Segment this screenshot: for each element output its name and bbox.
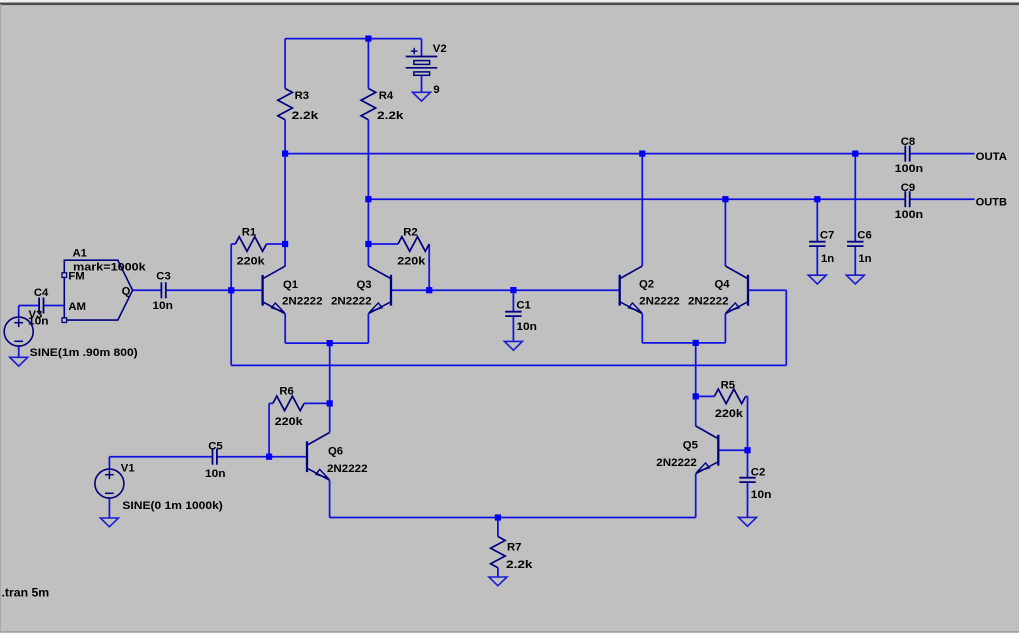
modulator A1: [62, 248, 146, 323]
svg-text:C4: C4: [34, 287, 49, 299]
net label OUTA: [976, 151, 1007, 163]
transistor Q5: [656, 426, 718, 474]
svg-text:C5: C5: [208, 440, 222, 452]
capacitor C4: [34, 287, 49, 314]
svg-text:R5: R5: [721, 380, 735, 392]
svg-text:100n: 100n: [895, 209, 924, 221]
svg-text:1n: 1n: [858, 253, 871, 265]
node OUTA / Q2 collector: [639, 151, 645, 157]
svg-text:10n: 10n: [152, 300, 173, 312]
capacitor C7: [809, 229, 834, 265]
svg-text:2N2222: 2N2222: [327, 463, 368, 475]
svg-text:Q: Q: [122, 286, 131, 298]
capacitor C8: [895, 136, 924, 175]
transistor Q3: [331, 266, 391, 314]
ground below R7: [489, 577, 507, 586]
node OUTB / Q4 collector: [722, 196, 728, 202]
svg-text:OUTB: OUTB: [976, 196, 1007, 208]
resistor R5: [714, 380, 745, 420]
svg-text:2N2222: 2N2222: [639, 296, 680, 308]
node top rail / V2: [365, 36, 371, 42]
ground below V2: [413, 92, 431, 101]
node R7 / emitter rail: [495, 514, 501, 520]
wire R6 right stub: [304, 402, 330, 404]
ground below C1: [504, 341, 522, 350]
wire C2 top stem: [747, 450, 749, 478]
node R1 / Q1 collector: [282, 241, 288, 247]
wire R1 right stub: [267, 243, 286, 245]
transistor Q4: [688, 266, 748, 314]
resistor R4: [361, 89, 404, 122]
capacitor C2: [739, 467, 771, 501]
wire OUTB rail: [368, 198, 905, 200]
wire V1 to C5: [109, 456, 212, 458]
svg-text:220k: 220k: [275, 416, 304, 428]
wire R2 right riser: [428, 244, 430, 290]
svg-text:C1: C1: [516, 299, 530, 311]
capacitor C1: [505, 299, 537, 333]
svg-text:10n: 10n: [205, 468, 226, 480]
voltage source V3: [4, 317, 138, 359]
wire V2 ground stem: [421, 75, 423, 92]
wire Q5 emitter drop: [695, 474, 697, 518]
svg-text:Q6: Q6: [328, 445, 343, 457]
svg-text:R6: R6: [279, 385, 293, 397]
node Q1 base: [228, 287, 234, 293]
resistor R7: [491, 537, 534, 572]
resistor R1: [235, 226, 266, 267]
svg-text:2.2k: 2.2k: [292, 110, 319, 122]
wire Q3 emitter drop: [367, 314, 369, 343]
wire Q1-Q3 emitter tie: [285, 342, 368, 344]
wire C5 to Q6 base: [217, 456, 307, 458]
wire emitter bottom rail: [330, 517, 696, 519]
battery V2: [406, 43, 447, 96]
svg-text:100n: 100n: [895, 163, 924, 175]
ground below V3: [10, 357, 28, 366]
svg-text:R3: R3: [295, 90, 309, 102]
node C5 / Q6 base: [266, 454, 272, 460]
svg-text:Q4: Q4: [715, 279, 731, 291]
transistor Q1: [263, 266, 323, 314]
wire R1 left stub: [231, 243, 235, 245]
wire C7 ground stem: [816, 246, 818, 275]
svg-text:R4: R4: [379, 90, 394, 102]
spice directive .tran 5m: [2, 585, 50, 599]
wire top supply rail: [285, 38, 421, 40]
wire R3 top stub: [284, 39, 286, 89]
svg-text:2N2222: 2N2222: [331, 295, 372, 307]
svg-text:9: 9: [433, 84, 439, 96]
wire C1 top stem: [512, 290, 514, 312]
resistor R3: [278, 89, 319, 122]
wire right tail riser: [695, 343, 697, 426]
node R5 / Q5 collector: [693, 393, 699, 399]
svg-text:Q1: Q1: [283, 279, 298, 291]
wire Q6 emitter drop: [329, 480, 331, 517]
wire Q5 base stub: [718, 449, 747, 451]
svg-text:220k: 220k: [237, 255, 266, 267]
svg-text:V1: V1: [121, 463, 135, 475]
svg-text:C2: C2: [751, 467, 765, 479]
ground below V1: [100, 518, 118, 527]
svg-text:C7: C7: [820, 229, 834, 241]
wire Q2-Q4 emitter tie: [642, 342, 725, 344]
wire Q output to C3: [133, 289, 162, 291]
wire V2 drop: [421, 39, 423, 57]
node Q1-Q3 emitter tail: [327, 340, 333, 346]
svg-text:C6: C6: [857, 229, 871, 241]
label C4 value: [28, 316, 49, 328]
node OUTB / R4: [365, 196, 371, 202]
wire R5 right stub: [746, 395, 748, 397]
svg-text:V2: V2: [433, 43, 447, 55]
svg-text:.tran 5m: .tran 5m: [2, 585, 50, 599]
svg-text:2N2222: 2N2222: [656, 457, 697, 469]
node R6 / Q6 collector: [327, 400, 333, 406]
svg-text:2N2222: 2N2222: [282, 295, 323, 307]
wire R2 left stub: [368, 243, 398, 245]
node OUTA / R3: [282, 151, 288, 157]
wire C6 ground stem: [854, 246, 856, 275]
svg-text:R1: R1: [242, 226, 256, 238]
svg-text:1n: 1n: [821, 253, 834, 265]
wire C3 to Q1 base: [166, 289, 263, 291]
wire V3 to C4: [19, 305, 40, 307]
wire C7 riser: [816, 199, 818, 242]
wire Q3-Q2 base bus: [391, 289, 620, 291]
svg-text:SINE(1m .90m 800): SINE(1m .90m 800): [30, 347, 138, 359]
capacitor C3: [152, 271, 173, 312]
node Q2-Q4 emitter tail: [693, 340, 699, 346]
wire OUTA output stub: [910, 153, 975, 155]
wire R6 left riser: [268, 403, 270, 456]
svg-text:2.2k: 2.2k: [377, 110, 404, 122]
wire Q4 base stub: [748, 289, 786, 291]
svg-text:R7: R7: [507, 542, 521, 554]
node OUTA / C6: [852, 151, 858, 157]
svg-text:Q3: Q3: [357, 279, 372, 291]
wire bottom base loop: [231, 364, 786, 366]
svg-text:2.2k: 2.2k: [506, 559, 533, 571]
wire Q2 emitter drop: [641, 314, 643, 343]
wire left base riser: [230, 244, 232, 365]
wire V3 top stem: [18, 306, 20, 318]
wire Q4 collector riser: [724, 199, 726, 266]
wire R7 top stub: [497, 518, 499, 537]
wire R6 left stub: [269, 402, 273, 404]
svg-text:Q5: Q5: [683, 440, 698, 452]
wire R7 ground stub: [497, 568, 499, 577]
wire right base riser: [785, 290, 787, 365]
wire Q2 collector riser: [641, 154, 643, 266]
svg-text:AM: AM: [68, 301, 86, 313]
resistor R6: [273, 385, 304, 428]
wire left tail riser: [329, 343, 331, 432]
voltage source V1: [95, 463, 223, 513]
svg-text:220k: 220k: [397, 255, 426, 267]
wire V1 top stem: [108, 457, 110, 469]
wire V1 ground stem: [108, 498, 110, 518]
capacitor C9: [895, 182, 924, 221]
svg-text:2N2222: 2N2222: [688, 296, 729, 308]
wire R5 right riser: [747, 396, 749, 450]
svg-text:R2: R2: [403, 226, 417, 238]
svg-text:Q2: Q2: [639, 279, 654, 291]
svg-text:C3: C3: [156, 271, 170, 283]
transistor Q2: [620, 266, 680, 314]
wire OUTB output stub: [910, 198, 975, 200]
capacitor C6: [847, 229, 872, 265]
svg-text:FM: FM: [68, 271, 84, 283]
ground below C7: [808, 275, 826, 284]
wire Q1 emitter drop: [284, 314, 286, 343]
svg-text:C9: C9: [901, 182, 915, 194]
wire V3 ground stem: [18, 346, 20, 357]
svg-text:10n: 10n: [751, 489, 772, 501]
node Q5 base / C2: [744, 447, 750, 453]
svg-text:10n: 10n: [516, 321, 537, 333]
wire C1 ground stem: [512, 316, 514, 341]
capacitor C5: [205, 440, 226, 480]
wire OUTA rail: [285, 153, 905, 155]
svg-text:C8: C8: [901, 136, 915, 148]
svg-text:220k: 220k: [715, 408, 744, 420]
svg-text:A1: A1: [73, 248, 87, 260]
wire R4 bottom / Q3 collector: [367, 120, 369, 266]
transistor Q6: [307, 433, 368, 481]
node R2 / Q3 base: [426, 287, 432, 293]
resistor R2: [397, 226, 429, 267]
node R2 / Q3 collector: [365, 241, 371, 247]
node OUTB / C7: [814, 196, 820, 202]
net label OUTB: [976, 196, 1007, 208]
svg-text:OUTA: OUTA: [976, 151, 1007, 163]
ground below C2: [739, 517, 757, 526]
wire C2 ground stem: [747, 482, 749, 517]
wire R5 left stub: [696, 395, 715, 397]
wire C4 to AM: [44, 305, 65, 307]
node C1 / base bus: [510, 287, 516, 293]
ground below C6: [846, 275, 864, 284]
wire C6 riser: [854, 154, 856, 242]
wire Q4 emitter drop: [724, 314, 726, 343]
wire R3 bottom / Q1 collector: [284, 120, 286, 266]
wire R4 top stub: [367, 39, 369, 89]
svg-text:SINE(0 1m 1000k): SINE(0 1m 1000k): [122, 500, 223, 512]
label V3 name: [29, 309, 43, 321]
